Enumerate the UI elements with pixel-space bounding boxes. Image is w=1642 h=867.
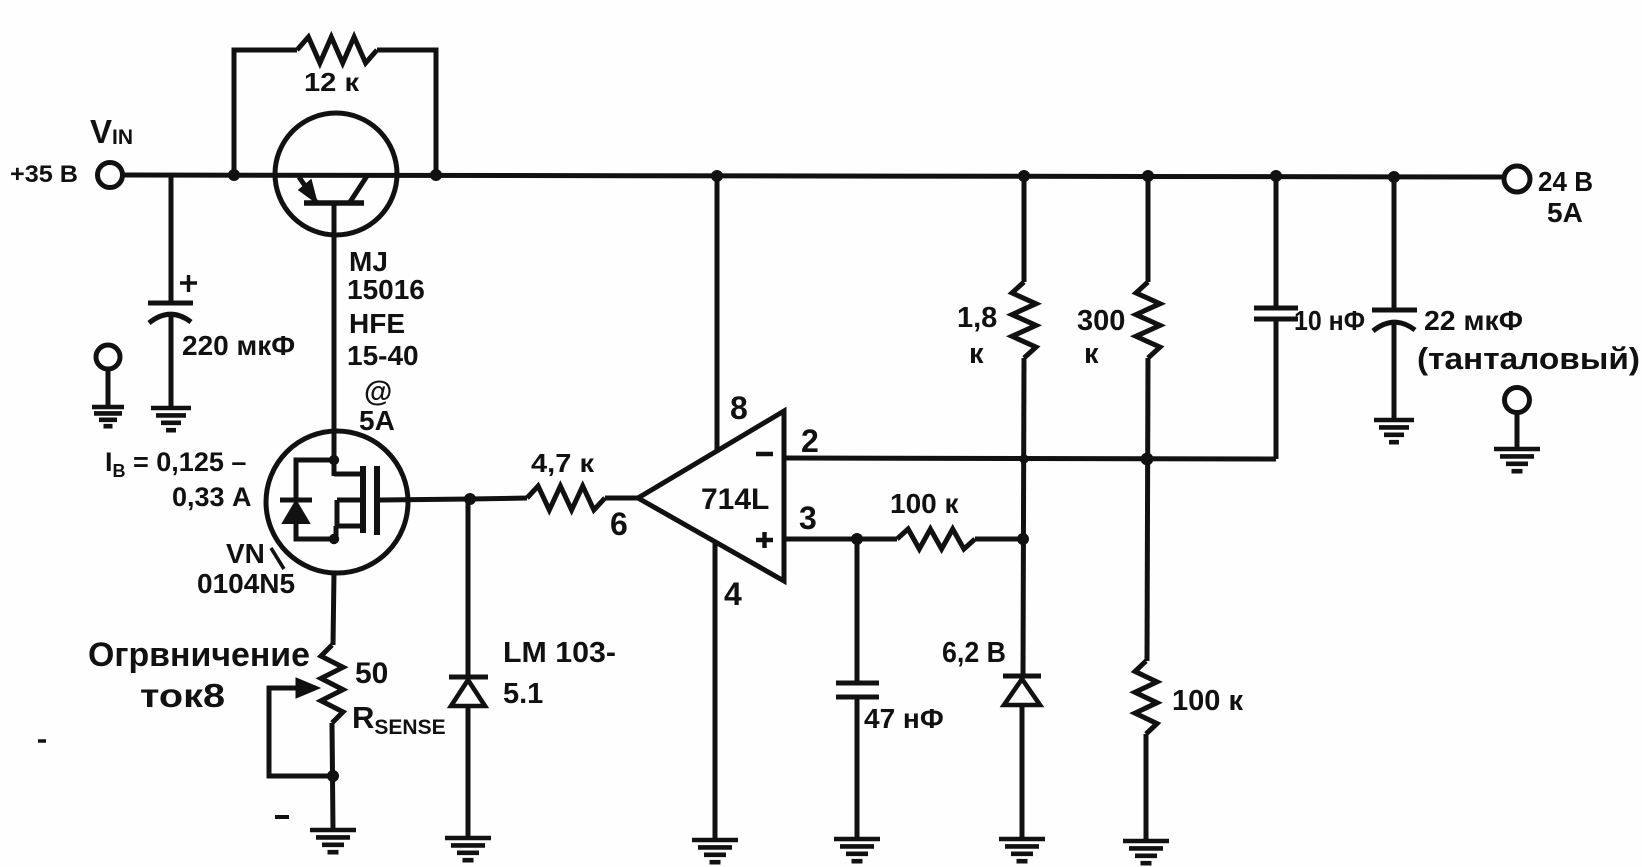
ground pin4 — [692, 840, 738, 862]
svg-text:100 к: 100 к — [1172, 685, 1243, 717]
wire 22uF branch — [1392, 176, 1397, 310]
svg-text:2: 2 — [801, 423, 819, 459]
wire 300k branch — [1146, 176, 1151, 282]
resistor R 100k vertical — [1135, 661, 1157, 734]
svg-text:6: 6 — [610, 506, 628, 542]
node input junction — [228, 169, 240, 181]
svg-text:10 нФ: 10 нФ — [1294, 305, 1365, 336]
svg-text:100 к: 100 к — [890, 488, 959, 519]
label LM 103- 5.1 — [503, 637, 616, 710]
node reference junction — [1017, 533, 1029, 545]
svg-text:4: 4 — [724, 576, 742, 612]
wire pin 4 to ground — [713, 542, 718, 840]
resistor R 100k horizontal — [857, 537, 897, 542]
svg-text:Огрвничение: Огрвничение — [88, 636, 310, 674]
label MJ 15016 HFE 15-40 @ 5A — [347, 246, 425, 436]
resistor R 4.7k — [527, 486, 605, 510]
svg-text:5.1: 5.1 — [503, 678, 543, 710]
node 1.8k rail junction — [1018, 170, 1030, 182]
label 300 к — [1077, 305, 1125, 370]
label C1 plus — [180, 275, 197, 292]
resistor Rsense 50 — [321, 645, 343, 723]
svg-text:LM 103-: LM 103- — [503, 637, 616, 669]
capacitor C1 220uF branch wire — [169, 175, 174, 302]
op-amp U1 714L — [638, 411, 784, 581]
node 22uF rail junction — [1388, 171, 1400, 183]
wire zener branch — [466, 499, 471, 678]
svg-text:22 мкФ: 22 мкФ — [1424, 305, 1523, 336]
svg-text:0,33 А: 0,33 А — [172, 482, 252, 512]
node 12k right junction — [430, 169, 442, 181]
label 1,8 к — [957, 302, 997, 370]
ground D2 — [999, 839, 1045, 861]
wire pin 2 net — [784, 458, 1276, 459]
capacitor C2 47nF — [836, 683, 879, 697]
svg-text:1,8: 1,8 — [957, 302, 997, 334]
node pin3 junction — [851, 533, 863, 545]
wire C1 to ground — [169, 316, 174, 408]
wire pin 8 supply — [715, 175, 720, 450]
diode D1 LM103-5.1 — [449, 677, 488, 706]
svg-text:@: @ — [364, 376, 392, 408]
svg-text:0104N5: 0104N5 — [197, 568, 295, 599]
capacitor C2 47nF branch — [855, 539, 860, 683]
svg-text:5А: 5А — [359, 405, 395, 436]
diode D2 6.2V — [1003, 676, 1041, 705]
wire zener to ground — [466, 706, 471, 838]
capacitor C3 10nF — [1254, 308, 1298, 319]
svg-text:к: к — [969, 338, 984, 370]
svg-text:300: 300 — [1077, 305, 1125, 337]
capacitor C1 220uF — [148, 303, 193, 323]
transistor Q2 VN0104N5 — [266, 431, 408, 573]
svg-text:714L: 714L — [701, 483, 769, 516]
ground Rsense — [310, 830, 356, 852]
stray mark far left — [38, 739, 46, 743]
wire 10nF to pin2 net — [1274, 319, 1279, 459]
svg-text:15-40: 15-40 — [347, 340, 419, 371]
node gate junction — [464, 493, 476, 505]
svg-text:6,2 В: 6,2 В — [942, 637, 1006, 669]
wire 1.8k to zener — [1023, 358, 1024, 677]
wire Q1 base to Q2 drain — [332, 203, 337, 433]
wire 100k to ground — [1144, 734, 1149, 841]
wiper arrow current limit — [269, 688, 333, 776]
svg-text:IB = 0,125 –: IB = 0,125 – — [105, 447, 246, 481]
capacitor C4 22uF tantalum — [1372, 310, 1417, 331]
wire Q2 source down — [333, 573, 334, 645]
svg-text:47 нФ: 47 нФ — [864, 703, 944, 734]
svg-text:ток8: ток8 — [140, 677, 225, 714]
svg-text:4,7 к: 4,7 к — [531, 448, 595, 478]
svg-text:24 В: 24 В — [1538, 166, 1593, 197]
wire Rsense to ground — [332, 723, 333, 830]
ground C2 — [834, 839, 880, 861]
ground C4 — [1374, 420, 1414, 442]
svg-text:50: 50 — [355, 657, 388, 690]
wire Q2 gate to op-amp — [377, 499, 470, 500]
svg-text:MJ: MJ — [349, 246, 388, 277]
stray mark bottom left — [275, 815, 289, 819]
svg-text:220 мкФ: 220 мкФ — [182, 330, 295, 361]
label VN 0104N5 — [197, 538, 295, 599]
wire 12k left leg — [234, 50, 297, 175]
output terminal 24V — [1504, 166, 1530, 192]
wire 1.8k branch — [1022, 175, 1027, 282]
node 300k rail junction — [1142, 170, 1154, 182]
svg-text:15016: 15016 — [347, 274, 425, 305]
label minus input — [756, 452, 773, 456]
node 1.8k pin2 cross — [1019, 454, 1028, 463]
svg-text:12 к: 12 к — [304, 67, 360, 97]
resistor R 12k — [297, 37, 377, 63]
svg-text:8: 8 — [730, 390, 748, 426]
wire 22uF to ground — [1392, 324, 1397, 420]
wire 12k right leg — [377, 50, 436, 175]
node 300k pin2 junction — [1141, 453, 1154, 466]
ground input terminal — [92, 407, 124, 426]
ground D1 — [445, 838, 491, 860]
wire output ground stub — [1515, 412, 1520, 449]
svg-text:(танталовый): (танталовый) — [1417, 341, 1640, 376]
terminal output ground — [1505, 388, 1530, 413]
node pin8 rail junction — [711, 170, 723, 182]
node 10nF rail junction — [1270, 170, 1282, 182]
ground C1 — [151, 408, 191, 430]
svg-text:3: 3 — [799, 500, 817, 536]
svg-text:VN: VN — [226, 538, 265, 569]
svg-text:к: к — [1084, 338, 1099, 370]
ground R100k — [1123, 841, 1169, 863]
transistor Q1 MJ15016 — [275, 113, 397, 235]
wire input rail — [123, 175, 1505, 177]
terminal input ground — [96, 345, 120, 369]
svg-text:5А: 5А — [1547, 197, 1583, 228]
resistor R 300k — [1136, 282, 1160, 358]
wire zener D2 to ground — [1020, 705, 1025, 839]
wire C2 to ground — [855, 697, 860, 839]
input terminal +35V — [98, 163, 123, 188]
node Rsense bottom junction — [327, 770, 339, 782]
resistor R 1.8k — [1012, 282, 1036, 358]
wire pin 3 stub — [784, 537, 857, 542]
wire 4.7k to op-amp pin6 — [605, 496, 638, 501]
svg-text:HFE: HFE — [349, 308, 405, 339]
wire 300k to 100k — [1147, 358, 1148, 661]
wire 10nF branch top — [1274, 176, 1279, 308]
svg-text:+35 В: +35 В — [10, 161, 78, 188]
wire input ground stub — [106, 369, 111, 407]
ground output terminal — [1494, 449, 1540, 471]
label plus input — [756, 532, 773, 548]
